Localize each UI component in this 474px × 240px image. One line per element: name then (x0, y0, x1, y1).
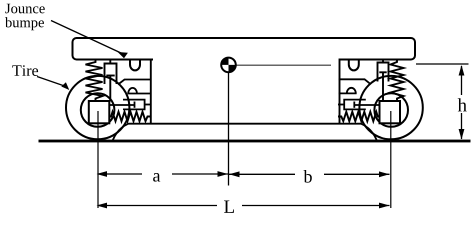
longitudinal damper rod (354, 104, 379, 106)
right strike plate (339, 79, 371, 84)
longitudinal spring (338, 112, 379, 121)
right suspension assembly (mirror) (338, 59, 423, 209)
gap in body bottom edge (middle) (153, 57, 339, 62)
CG extension line down (228, 72, 230, 186)
tire outer circle (66, 76, 129, 139)
right suspension spring (391, 61, 404, 102)
hub extension line (390, 111, 392, 208)
suspension spring (86, 61, 103, 102)
right rebound bumper shelf (339, 92, 357, 94)
knuckle bracket (339, 59, 341, 124)
left strike plate (118, 80, 151, 85)
longitudinal damper cylinder (344, 100, 366, 110)
left rebound bumper dome (128, 88, 137, 94)
label: b (304, 170, 312, 183)
longitudinal damper link to bracket (338, 104, 344, 106)
label: bumpe (5, 17, 44, 30)
left rebound bumper shelf (128, 93, 151, 95)
hub extension line (97, 111, 99, 208)
longitudinal damper link to bracket (145, 104, 151, 106)
label: L (224, 200, 234, 212)
dimension a line (97, 171, 229, 177)
label: Tire (12, 65, 38, 76)
damper rod lower (109, 76, 111, 102)
longitudinal spring (110, 112, 151, 121)
tire inner circle (81, 93, 115, 127)
dimension h (416, 64, 469, 140)
tire leader arrow (37, 77, 69, 91)
right damper cylinder (378, 63, 389, 82)
dimension L line (97, 203, 390, 209)
jounce bumper cup (349, 60, 359, 71)
label: h (458, 98, 467, 111)
ground (39, 140, 471, 143)
wheel hub block (89, 101, 110, 123)
damper piston (106, 75, 114, 77)
right damper rod upper (382, 60, 384, 63)
knuckle bracket (150, 59, 152, 124)
right damper rod lower (382, 72, 384, 101)
label: Jounce (5, 4, 44, 14)
wheel hub block (380, 101, 401, 123)
jounce bumper leader arrow (51, 21, 128, 59)
dimension b line (229, 171, 390, 177)
longitudinal damper rod (110, 104, 135, 106)
CG line to right (236, 64, 331, 66)
longitudinal damper cylinder (123, 100, 145, 110)
jounce bumper cup (130, 60, 140, 71)
left suspension assembly (66, 59, 151, 209)
right rebound bumper dome (347, 88, 356, 94)
tire inner circle (374, 93, 408, 127)
label: a (153, 173, 160, 182)
CG symbol (221, 58, 236, 73)
axle link line with fillets to ground (113, 124, 378, 141)
sprung mass body (73, 38, 416, 60)
tire outer circle (359, 76, 422, 139)
damper rod upper (109, 60, 111, 64)
damper cylinder (105, 64, 117, 85)
longitudinal damper piston (134, 102, 136, 108)
right damper piston (379, 71, 386, 73)
longitudinal damper piston (353, 102, 355, 108)
